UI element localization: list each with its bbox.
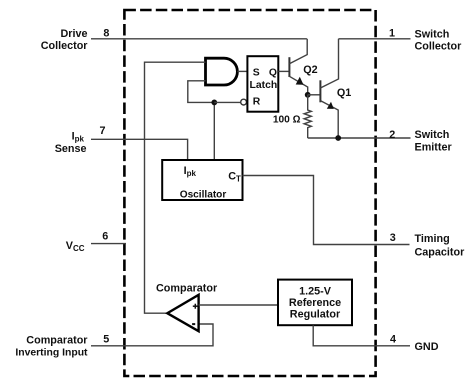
svg-text:S: S	[253, 68, 260, 79]
svg-text:Comparator: Comparator	[26, 334, 88, 346]
wire oscillator output to AND gate bottom input	[188, 81, 215, 103]
svg-text:Regulator: Regulator	[290, 308, 341, 320]
AND gate U2	[206, 58, 238, 85]
wire comparator output to AND gate top input	[145, 62, 206, 313]
svg-text:7: 7	[99, 125, 105, 137]
pin label Ipk Sense	[55, 131, 87, 156]
svg-text:R: R	[253, 97, 261, 108]
wire oscillator output riser	[213, 102, 215, 160]
svg-text:Switch: Switch	[415, 129, 450, 141]
svg-text:Switch: Switch	[415, 28, 450, 40]
svg-text:5: 5	[103, 334, 109, 346]
pin label Switch Collector	[415, 28, 463, 52]
wire pin 1 (Switch Collector)	[339, 38, 411, 40]
pin label Drive Collector	[41, 28, 89, 52]
svg-text:Oscillator: Oscillator	[180, 190, 227, 201]
svg-text:Inverting Input: Inverting Input	[15, 348, 88, 359]
svg-text:6: 6	[102, 230, 108, 242]
transistor Q2 (driver)	[289, 39, 307, 95]
comparator minus input marker	[192, 323, 195, 325]
wire pin 6 (VCC stub)	[91, 243, 126, 245]
svg-text:Latch: Latch	[250, 80, 278, 91]
transistor Q1 (output switch)	[320, 39, 338, 138]
pin label Switch Emitter	[415, 129, 453, 153]
wire latch Q output to Q2 base	[278, 70, 289, 72]
comparator U1	[167, 295, 198, 331]
svg-text:Q: Q	[269, 68, 277, 79]
node junction Q2 emitter / Q1 base / resistor	[305, 92, 311, 98]
svg-text:Q2: Q2	[303, 64, 317, 76]
svg-text:Comparator: Comparator	[156, 283, 218, 295]
svg-text:1: 1	[389, 27, 395, 39]
oscillator labels Ipk CT Oscillator	[180, 165, 241, 201]
node junction oscillator/reset	[211, 100, 217, 106]
resistor R1 100 ohm	[304, 95, 311, 138]
svg-text:3: 3	[390, 232, 396, 244]
svg-text:Capacitor: Capacitor	[415, 247, 466, 259]
wire reset to latch R bubble	[214, 101, 241, 103]
wire CT to pin 3 (Timing Capacitor)	[243, 176, 410, 245]
wire reference output to comparator plus input	[199, 304, 278, 306]
wire AND output to latch S input	[237, 70, 247, 72]
pin label Timing Capacitor	[415, 233, 466, 259]
svg-text:4: 4	[390, 334, 396, 346]
latch labels S Q Latch R	[250, 68, 278, 108]
wire pin 2 (Switch Emitter rail)	[308, 137, 411, 139]
wire pin 4 (GND)	[313, 325, 410, 346]
svg-text:Timing: Timing	[415, 233, 450, 245]
svg-text:Q1: Q1	[337, 87, 351, 99]
svg-text:Emitter: Emitter	[415, 141, 453, 153]
svg-text:Sense: Sense	[55, 143, 87, 155]
node junction Q1 emitter / pin 2	[335, 135, 341, 141]
svg-text:GND: GND	[415, 341, 439, 353]
pin label Comparator Inverting Input	[15, 334, 88, 358]
svg-text:Collector: Collector	[415, 40, 463, 52]
latch U3 box	[247, 56, 278, 111]
svg-text:1.25-V: 1.25-V	[299, 286, 332, 298]
oscillator U4 box	[162, 160, 242, 200]
dashed IC boundary	[124, 10, 375, 376]
svg-text:2: 2	[389, 129, 395, 141]
svg-text:Reference: Reference	[289, 297, 341, 309]
reference regulator labels	[289, 286, 341, 321]
wire pin 7 (Ipk Sense to oscillator)	[91, 139, 188, 160]
svg-text:8: 8	[103, 27, 109, 39]
reference regulator U5 box	[278, 280, 352, 326]
comparator plus input marker	[193, 304, 198, 309]
wire pin 5 (Comparator Inverting Input)	[91, 324, 213, 346]
svg-text:100 Ω: 100 Ω	[273, 115, 301, 126]
svg-text:Collector: Collector	[41, 40, 89, 52]
latch R inverting bubble	[241, 99, 247, 105]
wire pin 8 (Drive Collector rail)	[91, 38, 307, 40]
svg-text:Drive: Drive	[60, 28, 87, 40]
wire Q2 emitter to Q1 base	[308, 94, 321, 96]
